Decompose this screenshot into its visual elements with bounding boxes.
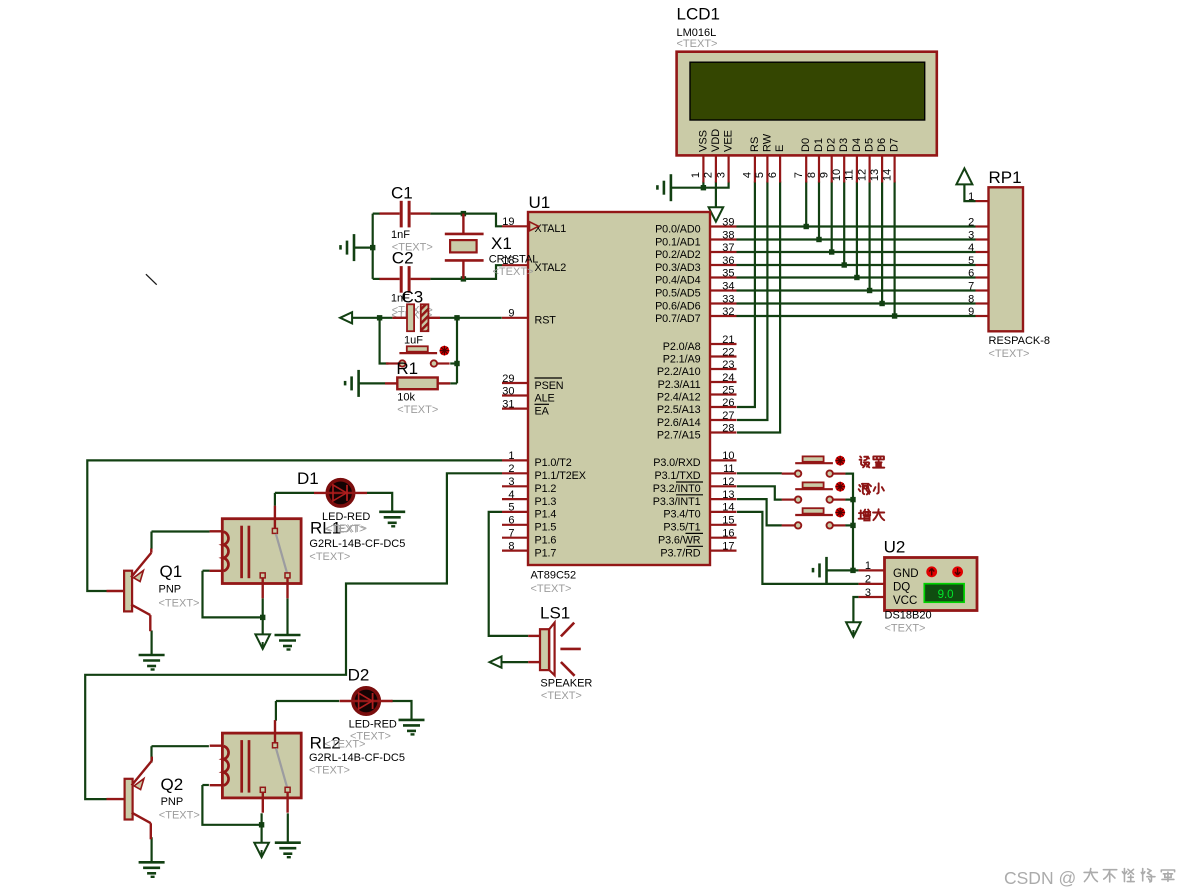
svg-text:LED-RED: LED-RED — [322, 511, 370, 523]
svg-text:<TEXT>: <TEXT> — [159, 598, 200, 610]
svg-text:C2: C2 — [392, 249, 414, 268]
svg-text:9: 9 — [968, 306, 974, 318]
svg-text:39: 39 — [722, 216, 734, 228]
svg-text:<TEXT>: <TEXT> — [309, 765, 350, 777]
svg-text:P2.6/A14: P2.6/A14 — [657, 417, 701, 429]
svg-text:P3.3/INT1: P3.3/INT1 — [653, 496, 701, 508]
svg-text:P1.6: P1.6 — [535, 535, 557, 547]
svg-text:D3: D3 — [838, 138, 850, 152]
svg-text:<TEXT>: <TEXT> — [677, 38, 718, 50]
svg-text:P0.1/AD1: P0.1/AD1 — [655, 236, 701, 248]
svg-text:<TEXT>: <TEXT> — [397, 404, 438, 416]
svg-text:5: 5 — [754, 172, 766, 178]
svg-text:37: 37 — [722, 242, 734, 254]
svg-text:6: 6 — [508, 515, 514, 527]
svg-text:P0.5/AD5: P0.5/AD5 — [655, 287, 701, 299]
svg-text:U1: U1 — [529, 193, 551, 212]
svg-text:11: 11 — [844, 169, 856, 180]
svg-text:<TEXT>: <TEXT> — [885, 623, 926, 635]
svg-text:13: 13 — [722, 489, 734, 501]
svg-text:<TEXT>: <TEXT> — [350, 731, 391, 743]
svg-text:D0: D0 — [800, 138, 812, 152]
svg-text:D7: D7 — [889, 138, 901, 152]
svg-text:XTAL2: XTAL2 — [535, 262, 567, 274]
svg-text:<TEXT>: <TEXT> — [309, 551, 350, 563]
svg-text:Q1: Q1 — [160, 562, 183, 581]
svg-text:P0.6/AD6: P0.6/AD6 — [655, 300, 701, 312]
svg-text:P1.7: P1.7 — [535, 547, 557, 559]
svg-text:9: 9 — [508, 308, 514, 320]
svg-text:10: 10 — [831, 169, 843, 181]
svg-text:13: 13 — [869, 169, 881, 181]
svg-text:6: 6 — [767, 172, 779, 178]
svg-text:P2.7/A15: P2.7/A15 — [657, 429, 701, 441]
svg-text:17: 17 — [722, 540, 734, 552]
svg-text:3: 3 — [508, 476, 514, 488]
svg-text:10k: 10k — [397, 392, 415, 404]
svg-text:33: 33 — [722, 293, 734, 305]
svg-text:RESPACK-8: RESPACK-8 — [989, 335, 1051, 347]
svg-text:9: 9 — [819, 172, 831, 178]
svg-text:P3.4/T0: P3.4/T0 — [663, 509, 700, 521]
svg-text:3: 3 — [968, 229, 974, 241]
svg-text:P2.0/A8: P2.0/A8 — [663, 341, 701, 353]
svg-text:24: 24 — [722, 372, 734, 384]
svg-text:G2RL-14B-CF-DC5: G2RL-14B-CF-DC5 — [309, 538, 405, 550]
svg-text:P0.2/AD2: P0.2/AD2 — [655, 249, 701, 261]
svg-text:D2: D2 — [826, 138, 838, 152]
svg-text:P0.0/AD0: P0.0/AD0 — [655, 223, 701, 235]
svg-text:VDD: VDD — [710, 129, 722, 152]
svg-text:P0.7/AD7: P0.7/AD7 — [655, 313, 701, 325]
svg-text:<TEXT>: <TEXT> — [493, 266, 534, 278]
svg-text:PSEN: PSEN — [535, 380, 564, 392]
svg-text:28: 28 — [722, 422, 734, 434]
svg-text:2: 2 — [865, 574, 871, 586]
svg-text:12: 12 — [722, 476, 734, 488]
svg-text:CSDN @: CSDN @ — [1004, 868, 1076, 888]
svg-text:32: 32 — [722, 306, 734, 318]
svg-text:VEE: VEE — [723, 130, 735, 152]
svg-text:P3.7/RD: P3.7/RD — [660, 547, 700, 559]
svg-text:19: 19 — [502, 216, 514, 228]
svg-text:RS: RS — [749, 137, 761, 152]
svg-text:P3.2/INT0: P3.2/INT0 — [653, 483, 701, 495]
svg-text:7: 7 — [968, 280, 974, 292]
svg-text:11: 11 — [723, 463, 734, 475]
svg-text:CRYSTAL: CRYSTAL — [489, 254, 539, 266]
svg-text:EA: EA — [535, 405, 550, 417]
svg-text:23: 23 — [722, 359, 734, 371]
svg-text:14: 14 — [722, 502, 734, 514]
svg-text:LS1: LS1 — [540, 604, 570, 623]
svg-text:4: 4 — [742, 172, 754, 178]
svg-text:1nF: 1nF — [391, 229, 410, 241]
svg-text:PNP: PNP — [159, 584, 182, 596]
svg-text:38: 38 — [722, 229, 734, 241]
svg-text:8: 8 — [508, 540, 514, 552]
svg-text:35: 35 — [722, 267, 734, 279]
svg-text:D4: D4 — [851, 138, 863, 152]
svg-text:P1.2: P1.2 — [535, 483, 557, 495]
svg-text:10: 10 — [722, 450, 734, 462]
svg-text:P0.4/AD4: P0.4/AD4 — [655, 274, 701, 286]
svg-text:1: 1 — [968, 191, 974, 203]
svg-text:U2: U2 — [884, 538, 906, 557]
svg-text:GND: GND — [893, 568, 919, 580]
svg-text:21: 21 — [722, 334, 734, 346]
svg-text:G2RL-14B-CF-DC5: G2RL-14B-CF-DC5 — [309, 752, 405, 764]
svg-text:16: 16 — [722, 528, 734, 540]
svg-text:DQ: DQ — [893, 582, 910, 594]
svg-text:Q2: Q2 — [161, 775, 184, 794]
svg-text:1: 1 — [690, 172, 702, 178]
svg-text:VSS: VSS — [697, 130, 709, 152]
svg-text:6: 6 — [968, 267, 974, 279]
svg-text:<TEXT>: <TEXT> — [541, 690, 582, 702]
svg-text:22: 22 — [722, 346, 734, 358]
svg-text:P2.4/A12: P2.4/A12 — [657, 391, 701, 403]
svg-text:15: 15 — [722, 515, 734, 527]
svg-text:P2.1/A9: P2.1/A9 — [663, 353, 701, 365]
svg-text:14: 14 — [881, 169, 893, 181]
svg-text:4: 4 — [508, 489, 514, 501]
svg-text:9.0: 9.0 — [938, 589, 954, 601]
svg-text:P1.4: P1.4 — [535, 509, 557, 521]
svg-text:D2: D2 — [348, 666, 370, 685]
svg-text:E: E — [774, 145, 786, 152]
svg-text:P1.3: P1.3 — [535, 496, 557, 508]
svg-text:34: 34 — [722, 280, 734, 292]
svg-text:2: 2 — [703, 172, 715, 178]
svg-text:P0.3/AD3: P0.3/AD3 — [655, 262, 701, 274]
svg-text:1uF: 1uF — [404, 335, 423, 347]
svg-text:1: 1 — [865, 560, 871, 572]
svg-text:2: 2 — [968, 216, 974, 228]
svg-text:26: 26 — [722, 397, 734, 409]
svg-text:D1: D1 — [813, 138, 825, 152]
svg-text:RW: RW — [761, 133, 773, 152]
svg-text:5: 5 — [508, 502, 514, 514]
svg-text:ALE: ALE — [535, 392, 555, 404]
svg-text:XTAL1: XTAL1 — [535, 223, 567, 235]
svg-text:VCC: VCC — [893, 595, 917, 607]
svg-text:P1.1/T2EX: P1.1/T2EX — [535, 470, 586, 482]
svg-text:P3.1/TXD: P3.1/TXD — [654, 470, 700, 482]
svg-text:1: 1 — [508, 450, 514, 462]
svg-text:X1: X1 — [491, 234, 512, 253]
svg-text:3: 3 — [715, 172, 727, 178]
svg-text:30: 30 — [502, 385, 514, 397]
svg-text:PNP: PNP — [161, 796, 184, 808]
svg-text:D1: D1 — [297, 469, 319, 488]
svg-text:<TEXT>: <TEXT> — [531, 583, 572, 595]
svg-text:31: 31 — [502, 398, 514, 410]
svg-text:36: 36 — [722, 255, 734, 267]
svg-text:<TEXT>: <TEXT> — [326, 523, 367, 535]
svg-text:P1.0/T2: P1.0/T2 — [535, 457, 572, 469]
svg-text:27: 27 — [722, 410, 734, 422]
svg-text:SPEAKER: SPEAKER — [540, 678, 592, 690]
svg-text:P2.2/A10: P2.2/A10 — [657, 366, 701, 378]
svg-text:P3.0/RXD: P3.0/RXD — [653, 457, 701, 469]
svg-text:3: 3 — [865, 587, 871, 599]
svg-text:<TEXT>: <TEXT> — [159, 810, 200, 822]
svg-text:7: 7 — [793, 172, 805, 178]
svg-text:R1: R1 — [396, 359, 418, 378]
svg-text:D6: D6 — [876, 138, 888, 152]
svg-text:P1.5: P1.5 — [535, 522, 557, 534]
svg-text:P2.3/A11: P2.3/A11 — [658, 379, 701, 391]
svg-text:4: 4 — [968, 242, 974, 254]
svg-text:P3.5/T1: P3.5/T1 — [663, 522, 700, 534]
svg-text:25: 25 — [722, 384, 734, 396]
svg-text:P2.5/A13: P2.5/A13 — [657, 404, 701, 416]
svg-text:P3.6/WR: P3.6/WR — [658, 535, 701, 547]
svg-text:LCD1: LCD1 — [677, 5, 720, 24]
svg-text:29: 29 — [502, 373, 514, 385]
svg-text:8: 8 — [806, 172, 818, 178]
svg-text:7: 7 — [508, 528, 514, 540]
svg-text:LED-RED: LED-RED — [349, 719, 397, 731]
svg-text:RP1: RP1 — [989, 168, 1022, 187]
svg-text:<TEXT>: <TEXT> — [989, 348, 1030, 360]
svg-text:D5: D5 — [864, 138, 876, 152]
svg-text:C1: C1 — [391, 184, 413, 203]
svg-text:12: 12 — [856, 169, 868, 181]
svg-text:8: 8 — [968, 293, 974, 305]
svg-text:AT89C52: AT89C52 — [531, 570, 577, 582]
svg-text:5: 5 — [968, 255, 974, 267]
svg-text:DS18B20: DS18B20 — [885, 610, 932, 622]
svg-text:RST: RST — [535, 315, 557, 327]
svg-text:2: 2 — [508, 463, 514, 475]
